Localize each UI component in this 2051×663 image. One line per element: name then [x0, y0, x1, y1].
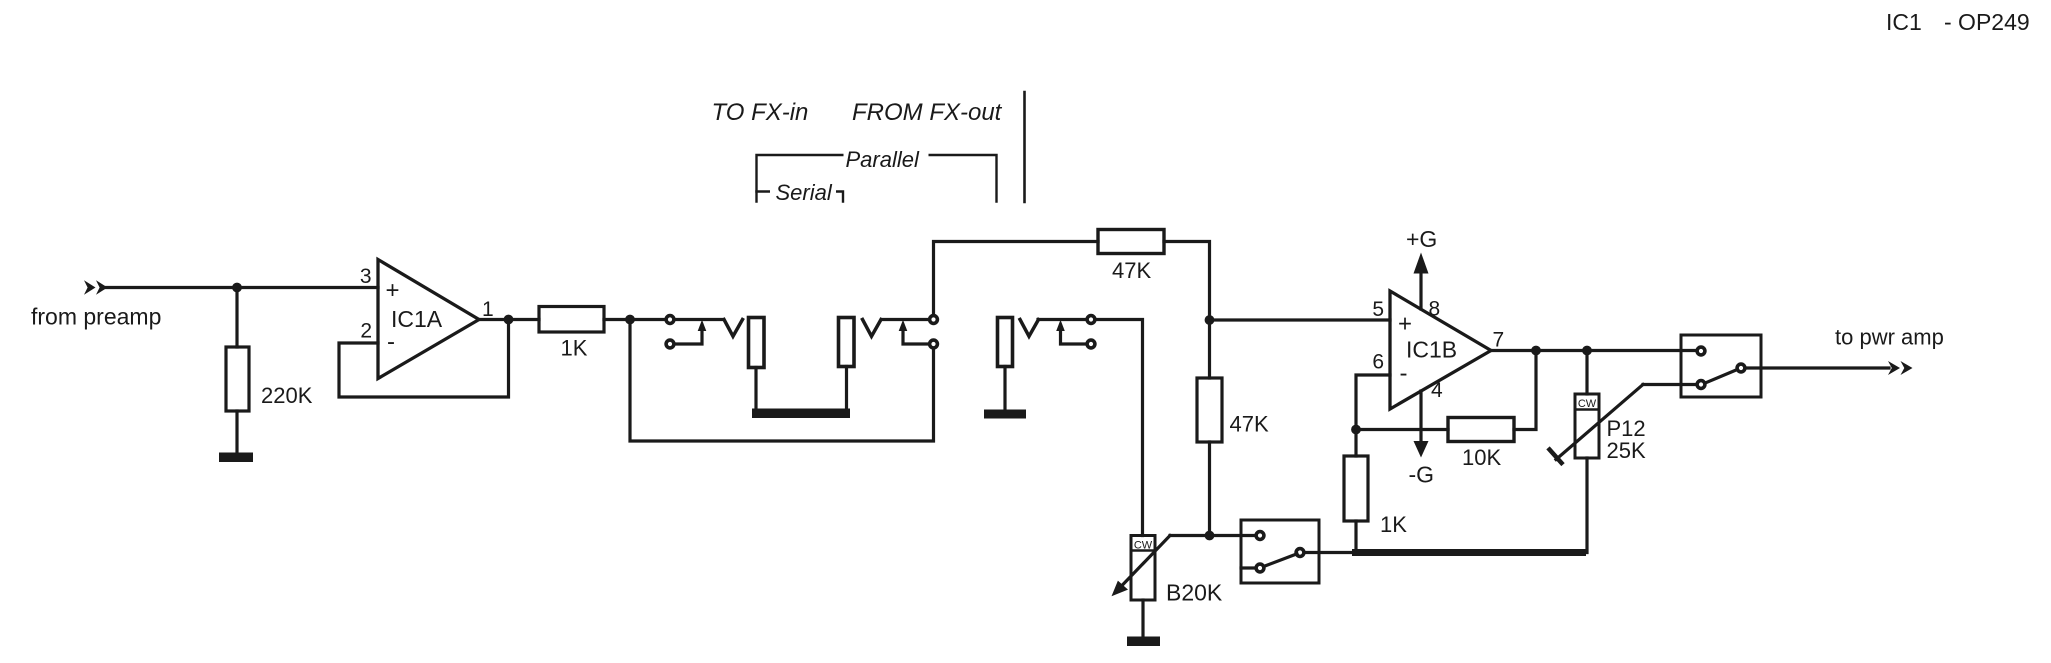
node output junction A	[1531, 346, 1541, 356]
op-amp IC1B	[1390, 291, 1491, 409]
svg-text:1K: 1K	[1380, 512, 1407, 537]
svg-text:-G: -G	[1409, 462, 1435, 488]
text TO FX-in label	[712, 99, 809, 126]
parallel bracket	[757, 144, 997, 202]
svg-text:CW: CW	[1578, 398, 1597, 410]
jack J2 normal contact arrow	[899, 320, 928, 344]
wire 1K to jack J1	[604, 318, 666, 321]
text 10K value	[1462, 445, 1501, 470]
IC1B pin 7 label	[1493, 329, 1505, 352]
jack J3 switch contact upper	[1087, 316, 1095, 324]
resistor R2 1K series	[539, 307, 604, 333]
jack J3 switch contact lower	[1087, 340, 1095, 348]
wire J2 tip to switch contact	[882, 318, 930, 321]
text 47K vertical value	[1230, 412, 1269, 437]
svg-text:IC1: IC1	[1886, 9, 1922, 35]
text 1K value	[561, 336, 588, 361]
svg-text:25K: 25K	[1607, 438, 1646, 463]
supply +G arrow	[1414, 253, 1429, 310]
svg-text:B20K: B20K	[1166, 580, 1223, 606]
switch SW2 contact upper	[1697, 347, 1705, 355]
IC1B pin 5 label	[1372, 298, 1384, 321]
text 47K top value	[1112, 258, 1151, 283]
node input junction	[232, 283, 242, 293]
patch cable bold link	[752, 409, 850, 419]
jack J2 switch contact lower	[930, 340, 938, 348]
switch SW2 lever	[1705, 370, 1738, 384]
svg-text:-: -	[1400, 360, 1408, 387]
wire B20K to ground	[1141, 600, 1144, 637]
ground B20K	[1127, 637, 1160, 647]
svg-text:FROM FX-out: FROM FX-out	[852, 99, 1003, 126]
text CW B20K	[1134, 540, 1153, 552]
IC1A plus input symbol	[386, 277, 400, 304]
wire J1 sleeve down	[754, 368, 757, 410]
jack J2 tip spring	[863, 320, 882, 337]
jack J1 tip spring	[724, 320, 743, 337]
switch SW1 serial-parallel box	[1241, 520, 1319, 583]
switch SW1 pole contact	[1296, 549, 1304, 557]
jack J3 plug body	[998, 318, 1013, 367]
text from preamp	[31, 304, 161, 330]
wire IC1B pin6	[1356, 375, 1390, 430]
svg-text:47K: 47K	[1230, 412, 1269, 437]
text IC1B designator	[1406, 337, 1457, 363]
IC1B plus input symbol	[1398, 311, 1412, 338]
text IC1A designator	[391, 306, 443, 332]
svg-text:IC1A: IC1A	[391, 306, 443, 332]
svg-text:4: 4	[1431, 379, 1443, 402]
resistor R1 220K	[226, 347, 249, 411]
IC1A pin 2 label	[360, 320, 372, 343]
wire 1K vertical top	[1354, 430, 1357, 457]
IC1B pin 4 label	[1431, 379, 1443, 402]
serial bracket	[757, 180, 844, 203]
text IC1 - OP249 title	[1886, 9, 2030, 35]
potentiometer P11 B20K body	[1131, 536, 1155, 601]
wire IC1A output	[479, 318, 539, 321]
wire bypass route	[630, 320, 934, 442]
separator line	[1023, 92, 1026, 202]
jack J3 normal contact arrow	[1056, 320, 1085, 344]
switch SW2 contact lower	[1697, 381, 1705, 389]
jack J1 switch contact lower	[666, 340, 674, 348]
switch SW1 contact upper	[1256, 532, 1264, 540]
resistor R5 1K vertical	[1344, 456, 1368, 521]
resistor R6 10K	[1448, 418, 1514, 442]
jack J1 normal contact arrow	[677, 320, 707, 344]
jack J1 switch contact upper	[666, 316, 674, 324]
resistor R4 47K vertical	[1197, 378, 1222, 442]
switch SW2 pole contact	[1737, 364, 1745, 372]
IC1A pin 1 label	[482, 298, 494, 321]
svg-text:+: +	[386, 277, 400, 304]
svg-text:220K: 220K	[261, 383, 313, 408]
resistor R3 47K top	[1098, 230, 1164, 254]
wire input to IC1A pin3	[104, 286, 378, 289]
IC1B minus input symbol	[1400, 360, 1408, 387]
potentiometer P12 wiper arrow	[1550, 385, 1644, 464]
bold bus wire	[1352, 549, 1586, 556]
wire 220K top	[235, 288, 238, 348]
wire J3 sleeve down	[1003, 367, 1006, 410]
svg-text:1K: 1K	[561, 336, 588, 361]
svg-text:Parallel: Parallel	[846, 147, 920, 172]
svg-text:47K: 47K	[1112, 258, 1151, 283]
svg-text:+: +	[1398, 311, 1412, 338]
wire node to IC1B pin5	[1210, 318, 1391, 321]
output connector chevron	[1888, 361, 1913, 375]
wire 220K to ground	[235, 411, 238, 453]
text 25K value	[1607, 438, 1646, 463]
ground 220K	[219, 453, 253, 463]
wire B20K wiper to node	[1170, 534, 1255, 537]
wire 47K to junction node	[1164, 242, 1210, 320]
text P12 designator	[1607, 416, 1646, 441]
svg-text:2: 2	[360, 320, 372, 343]
svg-text:- OP249: - OP249	[1944, 9, 2030, 35]
svg-text:Serial: Serial	[776, 180, 833, 205]
svg-text:-: -	[387, 329, 395, 356]
text CW P12	[1578, 398, 1597, 410]
jack J2 switch contact upper	[930, 316, 938, 324]
svg-text:+G: +G	[1406, 226, 1437, 252]
text FROM FX-out label	[852, 99, 1003, 126]
node feedback junction	[1351, 425, 1361, 435]
svg-text:1: 1	[482, 298, 494, 321]
wire J3 to B20K pot	[1096, 320, 1143, 536]
wire 1K vertical bottom	[1354, 521, 1357, 553]
node bypass junction	[625, 315, 635, 325]
wire SW1 lower contact stub	[1241, 566, 1255, 569]
switch SW1 contact lower	[1256, 564, 1264, 572]
text -G label	[1409, 462, 1435, 488]
wire 47K vertical to B20K node	[1208, 442, 1211, 536]
node output junction B	[1582, 346, 1592, 356]
svg-text:3: 3	[360, 265, 372, 288]
svg-text:IC1B: IC1B	[1406, 337, 1457, 363]
IC1A minus input symbol	[387, 329, 395, 356]
svg-text:CW: CW	[1134, 540, 1153, 552]
svg-text:10K: 10K	[1462, 445, 1501, 470]
wire P12 bottom	[1585, 458, 1588, 553]
svg-text:8: 8	[1429, 298, 1441, 321]
svg-text:5: 5	[1372, 298, 1384, 321]
text 220K value	[261, 383, 313, 408]
text 1K vertical value	[1380, 512, 1407, 537]
wire SW1 to bold bus	[1304, 551, 1356, 554]
wire P12 wiper to SW2	[1643, 383, 1697, 386]
text +G label	[1406, 226, 1437, 252]
svg-text:to pwr amp: to pwr amp	[1835, 325, 1944, 350]
jack J3 tip spring	[1020, 320, 1039, 337]
wire IC1B output	[1491, 349, 1697, 352]
potentiometer P12 body	[1575, 394, 1599, 458]
switch SW1 lever	[1264, 554, 1298, 567]
IC1B pin 6 label	[1372, 351, 1384, 374]
input connector chevron	[84, 280, 108, 295]
wire IC1A pin2 feedback loop	[339, 320, 509, 398]
svg-text:6: 6	[1372, 351, 1384, 374]
svg-text:7: 7	[1493, 329, 1505, 352]
svg-text:from preamp: from preamp	[31, 304, 161, 330]
wire 10K to output node	[1514, 351, 1536, 430]
supply -G arrow	[1414, 391, 1429, 458]
svg-text:TO FX-in: TO FX-in	[712, 99, 809, 126]
wire J1 contact to tip spring	[675, 318, 723, 321]
wire J2 up to 47K	[934, 242, 1099, 316]
node IC1A output junction	[504, 315, 514, 325]
wire P12 top	[1585, 351, 1588, 395]
IC1A pin 3 label	[360, 265, 372, 288]
wire SW2 to output	[1746, 366, 1889, 369]
op-amp IC1A	[378, 260, 479, 379]
text Serial label	[776, 180, 833, 205]
jack J1 plug body	[749, 318, 765, 368]
text to pwr amp	[1835, 325, 1944, 350]
ground J3	[984, 410, 1026, 419]
switch SW2 output box	[1681, 335, 1761, 397]
wire J3 tip to switch contact	[1038, 318, 1086, 321]
wire node to 47K vertical	[1208, 320, 1211, 378]
text B20K value	[1166, 580, 1223, 606]
IC1B pin 8 label	[1429, 298, 1441, 321]
wire J2 sleeve down	[845, 367, 848, 410]
text Parallel label	[846, 147, 920, 172]
wire feedback to 10K	[1356, 428, 1448, 431]
node B20K junction	[1205, 531, 1215, 541]
node 47K junction	[1205, 315, 1215, 325]
jack J2 plug body	[839, 318, 855, 367]
potentiometer B20K wiper arrow	[1112, 536, 1171, 597]
